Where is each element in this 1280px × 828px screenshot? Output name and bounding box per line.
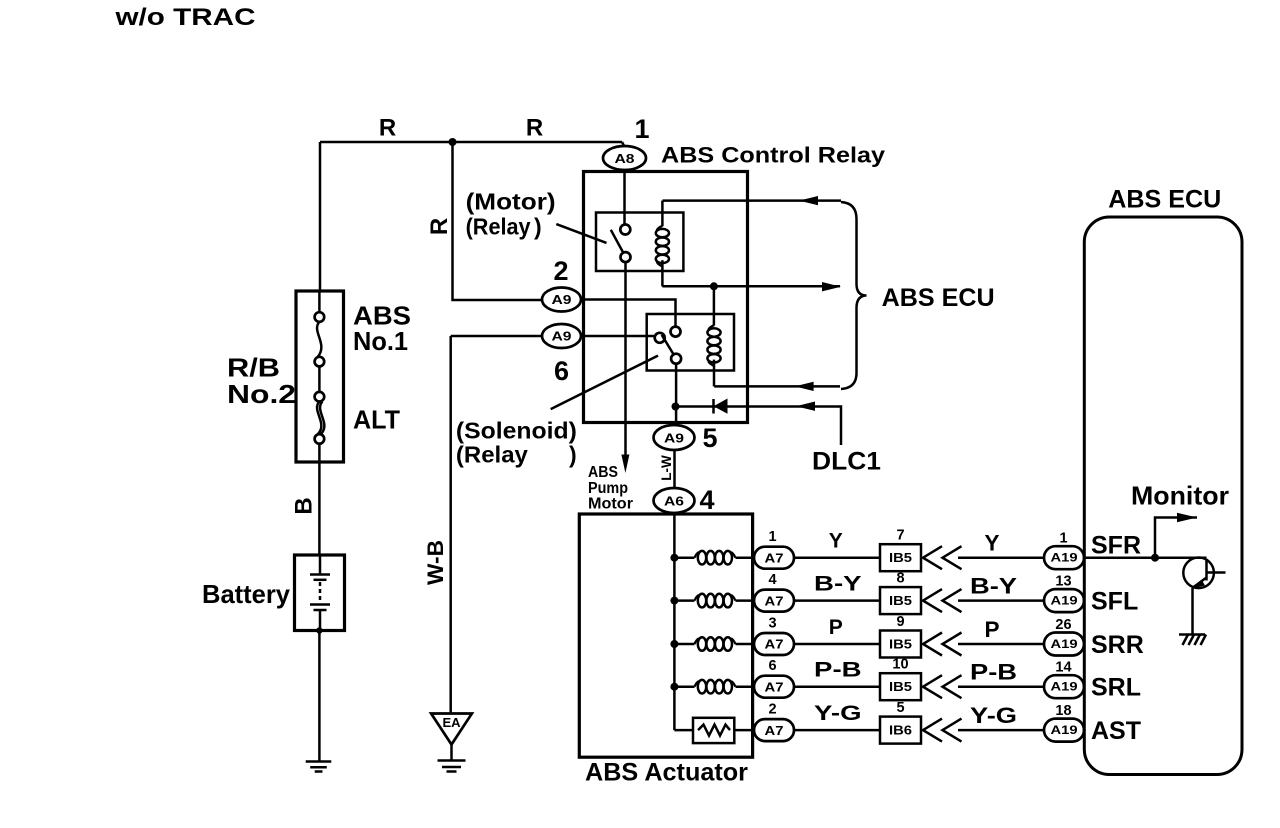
svg-text:L-W: L-W [659,455,674,481]
svg-text:ABS Control Relay: ABS Control Relay [661,143,886,168]
svg-text:DLC1: DLC1 [812,448,881,476]
svg-text:A19: A19 [1051,637,1078,651]
svg-text:A9: A9 [664,430,684,445]
svg-text:IB5: IB5 [889,680,912,694]
svg-text:w/o TRAC: w/o TRAC [114,4,255,31]
svg-text:B-Y: B-Y [814,572,862,595]
svg-text:): ) [569,442,577,468]
svg-text:Motor: Motor [588,496,633,513]
svg-text:A19: A19 [1051,723,1078,737]
svg-text:9: 9 [896,614,904,630]
svg-text:26: 26 [1055,617,1071,633]
svg-text:Y: Y [984,531,999,556]
svg-text:ABS ECU: ABS ECU [882,284,995,312]
svg-text:IB5: IB5 [889,551,912,565]
svg-text:SFR: SFR [1091,531,1141,559]
svg-text:R/B: R/B [227,353,280,383]
svg-text:): ) [534,214,542,240]
svg-text:(Solenoid): (Solenoid) [456,418,577,444]
svg-text:A9: A9 [552,292,572,307]
svg-text:18: 18 [1055,703,1071,719]
svg-text:AST: AST [1091,717,1141,745]
svg-text:SFL: SFL [1091,588,1138,616]
svg-text:Y: Y [829,530,843,553]
svg-text:IB6: IB6 [889,724,912,738]
svg-text:A7: A7 [765,679,784,694]
svg-text:A19: A19 [1051,594,1078,608]
svg-text:A7: A7 [765,637,784,652]
svg-text:No.1: No.1 [353,326,408,356]
svg-text:A9: A9 [552,329,572,344]
svg-text:ABS ECU: ABS ECU [1108,186,1221,214]
svg-text:1: 1 [1059,531,1067,547]
svg-text:No.2: No.2 [227,379,296,409]
svg-text:7: 7 [896,528,904,544]
svg-text:A7: A7 [765,550,784,565]
svg-text:W-B: W-B [423,540,448,585]
svg-text:Pump: Pump [588,480,628,497]
svg-text:SRR: SRR [1091,631,1144,659]
svg-text:(Relay: (Relay [456,442,528,468]
svg-text:SRL: SRL [1091,674,1141,702]
svg-text:R: R [526,115,543,142]
svg-text:P-B: P-B [814,659,862,682]
svg-text:5: 5 [896,700,904,716]
svg-text:ABS: ABS [588,464,618,481]
svg-text:13: 13 [1055,574,1071,590]
svg-text:P: P [984,617,999,642]
svg-text:IB5: IB5 [889,638,912,652]
svg-text:R: R [379,115,396,142]
svg-text:ALT: ALT [353,405,400,435]
svg-text:B: B [291,497,318,514]
svg-text:A19: A19 [1051,680,1078,694]
svg-text:1: 1 [634,114,649,144]
svg-text:Y-G: Y-G [970,703,1017,728]
svg-text:2: 2 [553,256,568,286]
svg-text:B-Y: B-Y [970,573,1017,598]
svg-text:Battery: Battery [202,579,291,609]
svg-text:ABS Actuator: ABS Actuator [585,759,748,787]
svg-text:(Relay: (Relay [466,214,531,240]
svg-text:A7: A7 [765,723,784,738]
svg-text:P-B: P-B [970,660,1017,685]
svg-text:5: 5 [702,423,717,453]
svg-text:4: 4 [768,572,776,588]
svg-text:A19: A19 [1051,551,1078,565]
svg-text:2: 2 [768,701,776,717]
svg-text:3: 3 [768,615,776,631]
svg-text:Monitor: Monitor [1131,481,1229,511]
svg-text:(Motor): (Motor) [466,189,556,215]
svg-text:EA: EA [442,715,461,730]
svg-text:A8: A8 [615,151,635,166]
svg-text:6: 6 [768,658,776,674]
svg-text:IB5: IB5 [889,594,912,608]
svg-text:1: 1 [768,529,776,545]
svg-text:14: 14 [1055,660,1071,676]
svg-text:Y-G: Y-G [814,702,862,725]
svg-text:6: 6 [554,356,569,386]
svg-text:A6: A6 [664,493,684,508]
svg-text:A7: A7 [765,593,784,608]
svg-text:R: R [426,218,453,235]
svg-text:P: P [829,616,843,639]
svg-text:4: 4 [699,485,714,515]
svg-text:10: 10 [892,657,908,673]
svg-text:8: 8 [896,571,904,587]
